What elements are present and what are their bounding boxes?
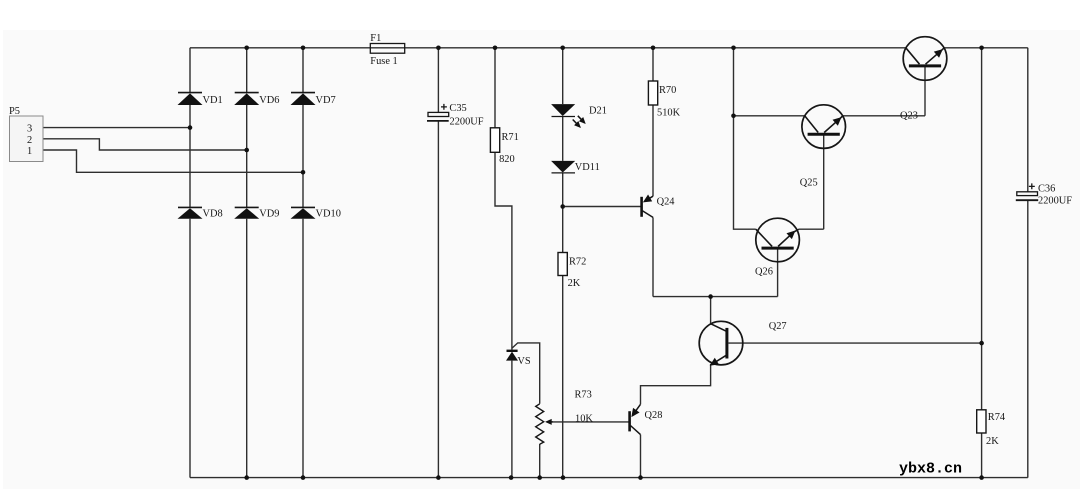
LED D21 light arrow 1 <box>578 116 585 123</box>
svg-text:2200UF: 2200UF <box>1038 195 1072 206</box>
svg-text:2K: 2K <box>568 278 581 289</box>
junction node top VD6 <box>244 46 249 51</box>
svg-text:Q26: Q26 <box>755 267 773 278</box>
wire Q26 emitter to Q25 base corner <box>799 228 824 230</box>
wire D21 / VD11 / R72 column <box>562 48 564 478</box>
diode VD10 <box>291 207 316 218</box>
svg-text:R71: R71 <box>502 132 519 143</box>
junction node gnd R74 <box>979 475 984 480</box>
wire Q25 base column <box>823 134 825 229</box>
wire Q27 base to R74 column <box>728 342 981 344</box>
potentiometer R73 zigzag <box>536 404 544 444</box>
LED D21 light arrow 2 <box>573 120 580 127</box>
svg-text:10K: 10K <box>575 414 593 425</box>
wire VS branch to R73 <box>512 343 540 404</box>
svg-text:C35: C35 <box>449 103 466 114</box>
wire bias node to Q25 collector <box>734 115 805 117</box>
wire Q27 emitter down and left <box>641 364 711 404</box>
svg-text:Q27: Q27 <box>769 321 787 332</box>
junction node pin3/VD1 <box>188 125 193 130</box>
connector P5 <box>10 116 44 162</box>
potentiometer R73 wiper arrow <box>547 421 553 423</box>
junction node gnd Q28 <box>638 475 643 480</box>
junction node 296 Q27 collector <box>708 294 713 299</box>
transistor Q23 <box>903 37 947 81</box>
svg-text:ybx8.cn: ybx8.cn <box>899 461 962 478</box>
wire P5 pin2 to VD6 column <box>43 139 247 150</box>
wire Q26 base column <box>777 248 779 297</box>
svg-text:510K: 510K <box>657 108 681 119</box>
svg-text:Q24: Q24 <box>657 197 676 208</box>
wire R74 column <box>981 48 983 478</box>
svg-text:VD9: VD9 <box>259 209 279 220</box>
junction node gnd VD7 <box>301 475 306 480</box>
transistor Q28 <box>630 404 641 434</box>
resistor R70 <box>648 81 657 105</box>
svg-text:VD8: VD8 <box>203 209 223 220</box>
junction node top R70 <box>651 46 656 51</box>
svg-text:VD11: VD11 <box>575 162 600 173</box>
junction node D21/Q24 base <box>560 204 565 209</box>
wire C36 right column <box>1027 48 1029 478</box>
svg-text:VS: VS <box>517 356 531 367</box>
transistor Q25 <box>802 105 846 149</box>
diode VD1 <box>178 93 203 105</box>
diode VD9 <box>234 207 259 218</box>
junction node top R74 column <box>979 46 984 51</box>
svg-text:C36: C36 <box>1038 183 1055 194</box>
svg-text:Q23: Q23 <box>900 111 918 122</box>
wire Q27 collector from node 296 <box>710 297 712 324</box>
wire R73 bottom to ground <box>539 444 541 478</box>
diode VD8 <box>178 207 203 218</box>
wire VD7 column <box>302 48 304 478</box>
svg-text:F1: F1 <box>370 33 381 44</box>
diode VD6 <box>234 93 259 105</box>
svg-text:P5: P5 <box>9 106 20 117</box>
junction node pin1/VD7 <box>301 170 306 175</box>
wire Q24 collector down to node <box>652 217 654 296</box>
wire top rail right (output net) <box>944 47 1028 49</box>
fuse F1 <box>370 44 404 54</box>
junction node gnd R72 <box>561 475 566 480</box>
wire R71 column and jog to VS <box>495 48 512 478</box>
svg-text:Fuse 1: Fuse 1 <box>370 56 397 67</box>
junction node top D21 <box>560 46 565 51</box>
LED D21 <box>551 104 575 116</box>
wire VD6 column <box>246 48 248 478</box>
transistor Q26 <box>756 218 800 262</box>
wire C35 column <box>437 48 439 478</box>
transistor Q24 <box>642 196 653 217</box>
svg-text:2200UF: 2200UF <box>450 116 484 127</box>
wire node 296 linking Q24, Q27, Q26 base <box>653 296 778 298</box>
junction node gnd VS <box>509 475 514 480</box>
wire Q28 emitter/collector column <box>640 435 642 478</box>
capacitor C36 <box>1017 192 1038 196</box>
junction node bias/Q25 collector <box>731 114 736 119</box>
junction node top C35 <box>436 46 441 51</box>
wire top rail left (fuse input net) <box>190 47 906 49</box>
svg-text:VD7: VD7 <box>316 95 336 106</box>
junction node top R71 <box>493 46 498 51</box>
transistor Q27 <box>699 321 743 365</box>
svg-text:VD1: VD1 <box>203 95 223 106</box>
diode VD11 <box>551 161 575 173</box>
wire R73 wiper to Q28 base <box>548 421 630 423</box>
wire Q23 base column <box>924 66 926 116</box>
svg-text:3: 3 <box>27 124 32 135</box>
junction node top VD7 <box>301 46 306 51</box>
junction node gnd R73 <box>537 475 542 480</box>
junction node Q27 base/R74 <box>979 341 984 346</box>
capacitor C35 plus sign <box>441 104 447 110</box>
diode VD7 <box>291 93 316 105</box>
junction node gnd C35 <box>436 475 441 480</box>
wire VD1 column <box>189 48 191 478</box>
svg-text:D21: D21 <box>589 106 607 117</box>
wire Q24 base from D21 node <box>563 206 641 208</box>
svg-text:R72: R72 <box>569 257 586 268</box>
zener diode VS <box>506 351 518 361</box>
svg-text:VD10: VD10 <box>316 209 341 220</box>
resistor R74 <box>977 410 986 433</box>
wire left bias column x733 <box>734 48 756 229</box>
junction node pin2/VD6 <box>244 148 249 153</box>
svg-text:Q25: Q25 <box>800 178 818 189</box>
resistor R72 <box>558 253 567 276</box>
svg-text:R74: R74 <box>988 412 1006 423</box>
junction node gnd VD6 <box>244 475 249 480</box>
wire P5 pin3 to VD1 column <box>43 127 190 129</box>
wire bottom rail (ground net) <box>190 477 1028 479</box>
capacitor C36 plus sign <box>1029 183 1035 189</box>
capacitor C35 <box>428 112 449 116</box>
junction node top bias column <box>731 46 736 51</box>
svg-text:R73: R73 <box>575 390 592 401</box>
svg-text:R70: R70 <box>659 85 676 96</box>
svg-text:2: 2 <box>27 135 32 146</box>
svg-text:Q28: Q28 <box>645 410 663 421</box>
svg-text:820: 820 <box>499 154 515 165</box>
svg-text:1: 1 <box>27 146 32 157</box>
wire R70 column <box>652 48 654 196</box>
wire Q25 emitter to Q23 base column <box>843 115 925 117</box>
resistor R71 <box>490 128 499 153</box>
wire P5 pin1 to VD7 column <box>43 150 303 172</box>
svg-text:2K: 2K <box>986 436 999 447</box>
svg-text:VD6: VD6 <box>259 95 279 106</box>
